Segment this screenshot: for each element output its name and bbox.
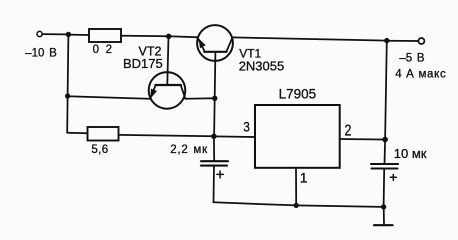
capacitor C1 2.2uF bottom plate (201, 165, 227, 167)
capacitor C1 2.2uF top plate (201, 160, 228, 162)
wire R1 to node B (121, 35, 169, 38)
svg-text:–10 В: –10 В (25, 47, 57, 59)
ground bar (374, 224, 393, 226)
svg-text:0 2: 0 2 (93, 44, 113, 56)
node D junction (VT1 base / VT2 collector) (212, 96, 217, 101)
transistor VT2 base bar (155, 84, 180, 86)
transistor VT1 base bar (204, 51, 226, 53)
wire VT1 base down to node D and node E (214, 52, 215, 136)
wire R2 to node E (119, 135, 214, 136)
node C junction (output) (384, 38, 389, 43)
wire node F to VT2 emitter (68, 96, 150, 99)
resistor R2 5.6 ohm (88, 127, 119, 141)
transistor VT2 emitter line (150, 85, 155, 98)
svg-text:–5 В: –5 В (399, 53, 424, 65)
transistor VT2 collector line (181, 85, 186, 99)
svg-text:2,2 мк: 2,2 мк (170, 144, 208, 156)
pin 1 wire from U1 down to node I (295, 168, 297, 206)
transistor VT2 base lead up to node B (167, 36, 168, 85)
transistor VT2 emitter arrow (150, 89, 157, 99)
pin 2 wire to node G (340, 138, 385, 141)
svg-text:10 мк: 10 мк (394, 146, 427, 161)
node B junction (VT2 base tap) (166, 34, 171, 39)
node E junction (pin3 / C1) (211, 134, 216, 139)
wire C2 down to node H (383, 169, 386, 207)
wire node G down to capacitor C2 (384, 140, 387, 165)
wire C1 lead from node E down to capacitor C1 (213, 136, 215, 161)
capacitor C2 10uF top plate (371, 163, 398, 165)
wire node F down to R2 row (66, 96, 68, 133)
svg-text:4 А макс: 4 А макс (395, 69, 446, 81)
transistor VT1 collector line (227, 38, 233, 52)
wire corner to resistor R2 (67, 132, 87, 134)
wire node B to VT1 emitter (169, 35, 198, 38)
wire VT1 collector to node C (233, 37, 387, 40)
svg-text:5,6: 5,6 (91, 144, 108, 156)
bottom rail wire C1 corner to node I (214, 202, 297, 205)
capacitor C2 plus sign (390, 174, 396, 180)
transistor Q2 VT2 circle (149, 72, 186, 109)
svg-text:2: 2 (345, 122, 352, 140)
node A junction (66, 32, 71, 37)
wire terminal to node A (43, 33, 66, 35)
svg-text:3: 3 (243, 118, 250, 134)
node F junction (VT2 emitter wire) (65, 93, 70, 98)
terminal -5V output (418, 38, 424, 44)
wire node C to output terminal (387, 40, 418, 42)
node H junction (ground) (381, 204, 386, 209)
svg-text:L7905: L7905 (279, 87, 317, 102)
transistor VT1 emitter arrow (199, 38, 206, 48)
regulator U1 L7905 box (255, 105, 340, 168)
transistor VT1 emitter line (198, 38, 205, 52)
wire VT2 collector to node D (186, 97, 215, 99)
wire node A down to node F (67, 35, 70, 96)
wire node C down to node G (385, 41, 387, 140)
capacitor C2 10uF bottom plate (372, 167, 398, 169)
terminal -10V input (37, 31, 42, 36)
ground lead (383, 207, 385, 225)
resistor R1 0.2 ohm (89, 29, 121, 42)
bottom rail wire node I to node H (296, 205, 383, 207)
svg-text:BD175: BD175 (123, 56, 163, 71)
svg-text:2N3055: 2N3055 (239, 58, 285, 73)
wire node A to resistor R1 (68, 34, 89, 36)
svg-text:1: 1 (300, 169, 308, 185)
transistor Q1 VT1 circle (197, 25, 233, 61)
capacitor C1 plus sign (217, 171, 223, 178)
wire node E to pin 3 of U1 (214, 135, 255, 138)
wire C1 down to bottom rail (213, 166, 216, 203)
node I junction (pin1) (294, 203, 299, 208)
node G junction (pin2 / C2) (382, 137, 388, 143)
